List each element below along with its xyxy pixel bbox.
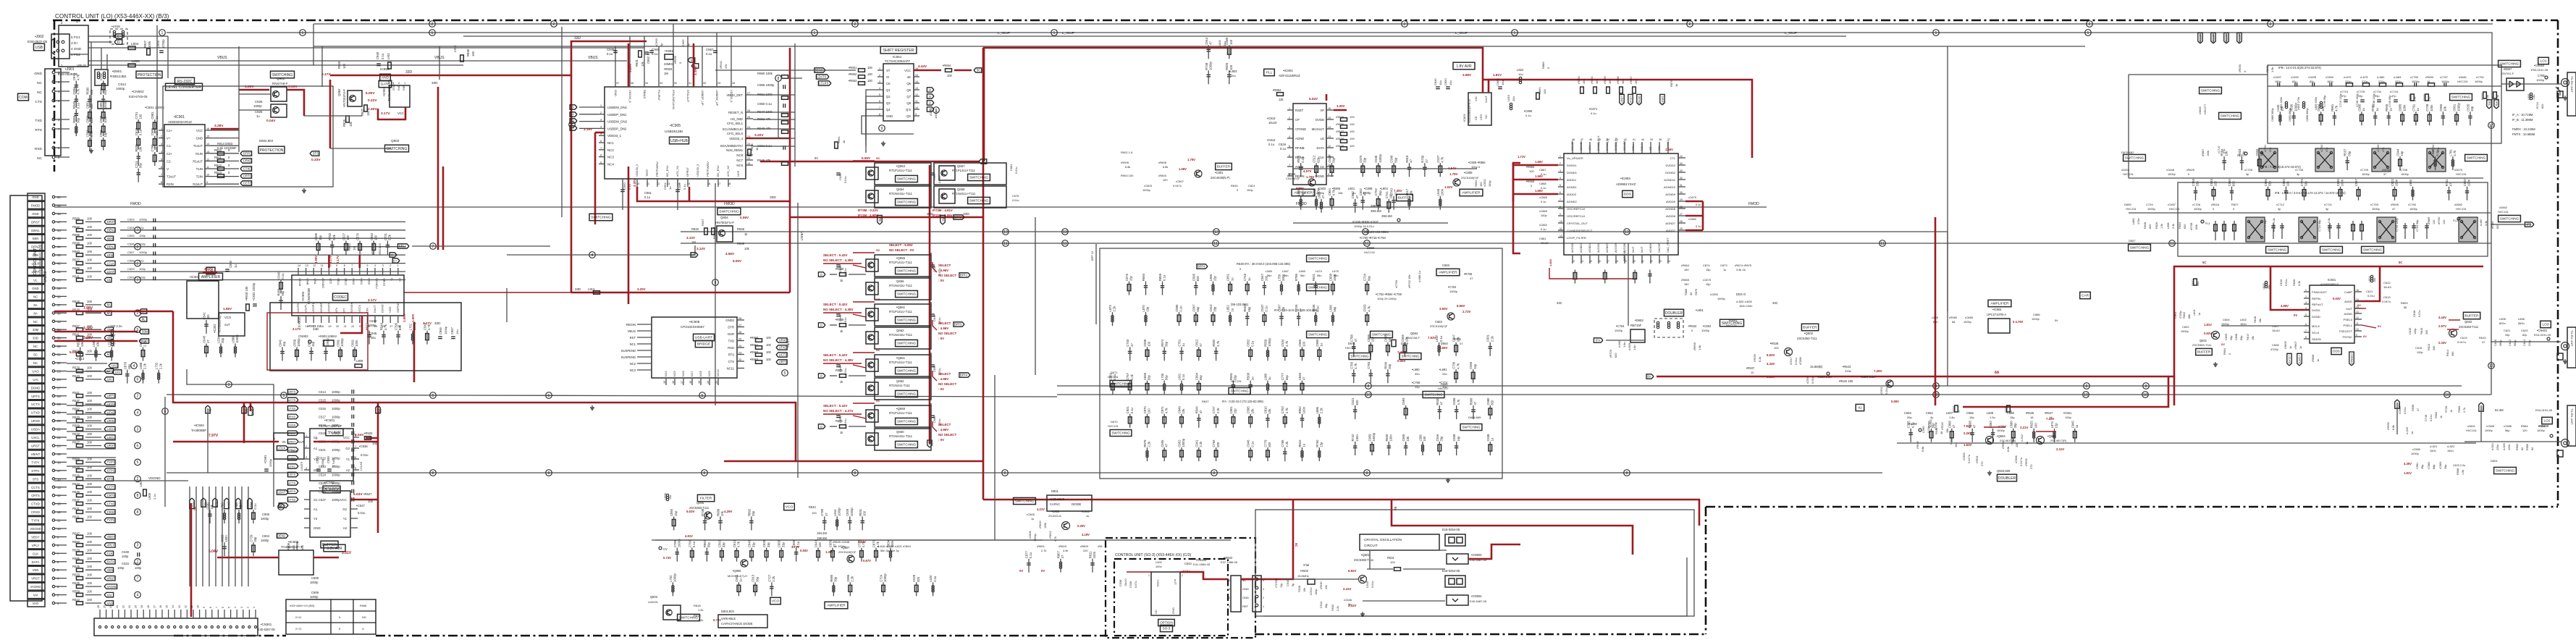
svg-text:R616: R616 bbox=[2253, 316, 2257, 323]
svg-text:2: 2 bbox=[432, 22, 434, 27]
svg-text:0.1u: 0.1u bbox=[1439, 335, 1443, 342]
TX-RX UNIT box low bbox=[2567, 405, 2576, 446]
svg-text:4.34V: 4.34V bbox=[1767, 362, 1775, 366]
bus 10 middle bbox=[681, 232, 1948, 386]
svg-text:C618: C618 bbox=[135, 127, 138, 135]
svg-text:C527: C527 bbox=[319, 498, 327, 502]
svg-text:C620: C620 bbox=[2494, 340, 2497, 346]
svg-text:•IC906: •IC906 bbox=[689, 320, 700, 324]
svg-text:100n: 100n bbox=[1355, 434, 1359, 442]
svg-text:NC: NC bbox=[37, 81, 42, 85]
svg-text:•L524: •L524 bbox=[2491, 443, 2494, 450]
svg-text:47: 47 bbox=[1580, 138, 1583, 141]
svg-text:R928: R928 bbox=[337, 61, 341, 69]
svg-text:Q658: Q658 bbox=[957, 188, 965, 191]
svg-text:C758: C758 bbox=[2192, 179, 2195, 187]
IC905 left D tags bbox=[579, 106, 599, 108]
red 5C vertical 522 bbox=[377, 403, 379, 533]
svg-text:•C751: •C751 bbox=[2476, 75, 2485, 79]
svg-text:STS: STS bbox=[313, 152, 319, 156]
IC901 input caps cluster bbox=[137, 122, 140, 129]
svg-text:L605: L605 bbox=[2499, 317, 2506, 321]
X2 filter chain bbox=[1856, 404, 1864, 410]
svg-text:7: 7 bbox=[879, 106, 880, 109]
svg-text:AGND7: AGND7 bbox=[1665, 222, 1676, 225]
svg-text:4: 4 bbox=[1289, 135, 1290, 138]
svg-text:C595: C595 bbox=[1192, 273, 1195, 281]
svg-text:8: 8 bbox=[2145, 384, 2147, 389]
svg-text:LDAT5: LDAT5 bbox=[2298, 355, 2302, 363]
row2 upper switching bbox=[2123, 154, 2146, 161]
red crystal branches bbox=[1392, 500, 1633, 539]
svg-text:(95-103.095): (95-103.095) bbox=[1231, 303, 1249, 306]
svg-text:1k: 1k bbox=[755, 148, 759, 151]
LO3 coax bbox=[2562, 342, 2569, 350]
svg-text:D-: D- bbox=[571, 106, 575, 109]
svg-text:23: 23 bbox=[116, 605, 119, 608]
svg-text:C629: C629 bbox=[912, 574, 916, 582]
bus 11 middle bbox=[681, 243, 2491, 244]
svg-text:VCC: VCC bbox=[329, 278, 332, 285]
svg-text:SUSPEND: SUSPEND bbox=[621, 355, 636, 359]
svg-text:0V: 0V bbox=[2221, 342, 2225, 346]
svg-text:100p 29 1000p: 100p 29 1000p bbox=[1377, 297, 1397, 300]
svg-text:•CN654: •CN654 bbox=[2534, 64, 2545, 67]
svg-text:100: 100 bbox=[1350, 137, 1355, 140]
svg-text:•Q501: •Q501 bbox=[1361, 553, 1370, 557]
svg-text:R598: R598 bbox=[72, 242, 80, 245]
svg-text:1.5k: 1.5k bbox=[2270, 67, 2274, 72]
svg-text:56n: 56n bbox=[1317, 274, 1322, 277]
svg-text:FILTER: FILTER bbox=[700, 497, 712, 501]
red sc feed Q659 bbox=[853, 403, 875, 404]
svg-text:RT1N441U-T111: RT1N441U-T111 bbox=[889, 284, 913, 287]
svg-text:1u: 1u bbox=[1086, 514, 1089, 518]
svg-text:E40-5487-05: E40-5487-05 bbox=[1470, 599, 1487, 603]
svg-text:1u: 1u bbox=[739, 578, 743, 581]
svg-text:7.26V: 7.26V bbox=[1874, 369, 1882, 373]
svg-text:11: 11 bbox=[1213, 242, 1217, 246]
svg-text:D+: D+ bbox=[571, 113, 575, 117]
svg-text:VDD33_1: VDD33_1 bbox=[607, 134, 622, 138]
svg-text:C925: C925 bbox=[255, 110, 263, 114]
svg-text:D657: D657 bbox=[2129, 239, 2136, 243]
svg-text:82: 82 bbox=[2531, 447, 2534, 450]
svg-text:0.01u: 0.01u bbox=[2367, 294, 2375, 298]
bus line 1 bbox=[167, 33, 2492, 86]
svg-text:10u: 10u bbox=[1512, 96, 1515, 101]
svg-text:R531: R531 bbox=[72, 515, 80, 519]
svg-text:C624: C624 bbox=[2523, 340, 2526, 346]
svg-text:8A: 8A bbox=[1647, 375, 1651, 379]
svg-text:Q657: Q657 bbox=[957, 164, 965, 168]
svg-text:1000p: 1000p bbox=[310, 595, 319, 599]
svg-text:AGND9: AGND9 bbox=[1665, 193, 1676, 196]
svg-text:: 4.96V: : 4.96V bbox=[938, 428, 948, 431]
svg-text:1: 1 bbox=[1229, 605, 1230, 608]
svg-text:C594: C594 bbox=[72, 87, 76, 95]
svg-text:VEN: VEN bbox=[107, 568, 114, 572]
svg-text:NC9: NC9 bbox=[708, 371, 711, 376]
svg-text:5: 5 bbox=[879, 93, 880, 96]
svg-text:LEN: LEN bbox=[107, 253, 113, 257]
svg-text:5C: 5C bbox=[2399, 261, 2402, 264]
R926 10k bbox=[346, 116, 350, 122]
svg-text:R693: R693 bbox=[1142, 273, 1145, 281]
svg-text:0.1u: 0.1u bbox=[683, 184, 686, 190]
svg-text:100: 100 bbox=[87, 565, 93, 568]
svg-text:•R548: •R548 bbox=[1940, 422, 1944, 430]
Q903 switching label bbox=[385, 145, 409, 152]
svg-text:NO SELECT : 4.38V: NO SELECT : 4.38V bbox=[823, 308, 854, 311]
svg-text:IF_A : 10.719M: IF_A : 10.719M bbox=[2512, 113, 2533, 117]
svg-text:10: 10 bbox=[636, 182, 639, 185]
so3 red wire bbox=[1127, 571, 1151, 573]
svg-text:C538: C538 bbox=[1119, 580, 1122, 586]
svg-text:LO3: LO3 bbox=[2542, 323, 2548, 327]
svg-text:23: 23 bbox=[1659, 260, 1662, 263]
svg-text:820: 820 bbox=[917, 576, 920, 582]
svg-text:LDAT: LDAT bbox=[277, 491, 285, 494]
svg-text:8: 8 bbox=[209, 607, 212, 608]
svg-text:•C712: •C712 bbox=[2276, 203, 2285, 206]
svg-text:Q901: Q901 bbox=[277, 77, 285, 80]
svg-text:1000p: 1000p bbox=[2475, 80, 2483, 83]
svg-text:100: 100 bbox=[87, 473, 93, 477]
svg-text:11: 11 bbox=[915, 100, 918, 103]
svg-text:VCO: VCO bbox=[786, 505, 794, 510]
svg-text:•R935: •R935 bbox=[673, 55, 677, 64]
svg-text:4.7k: 4.7k bbox=[862, 541, 865, 547]
svg-text:IF73M : 0.22V: IF73M : 0.22V bbox=[858, 209, 878, 212]
svg-text:AGND11: AGND11 bbox=[1664, 178, 1675, 182]
Q505 transistor bbox=[2037, 437, 2045, 445]
svg-text:USB: USB bbox=[35, 46, 43, 50]
svg-text:C559: C559 bbox=[293, 339, 297, 347]
svg-text:VCC: VCC bbox=[196, 129, 203, 132]
svg-text:30: 30 bbox=[1680, 191, 1683, 194]
svg-text:R742: R742 bbox=[1351, 434, 1355, 442]
svg-text:0.22V: 0.22V bbox=[368, 98, 377, 103]
red crystal connector bbox=[1632, 539, 1634, 555]
svg-text:CN902: CN902 bbox=[298, 334, 308, 338]
svg-text:5: 5 bbox=[432, 394, 434, 398]
svg-text:R596: R596 bbox=[72, 557, 80, 560]
wire stubs top area bbox=[167, 36, 169, 78]
svg-text:C505: C505 bbox=[127, 234, 135, 237]
svg-text:C799: C799 bbox=[151, 144, 154, 152]
svg-text:22k: 22k bbox=[1325, 585, 1328, 589]
svg-text:1000p: 1000p bbox=[1963, 320, 1971, 324]
svg-text:•D662: •D662 bbox=[2499, 206, 2508, 209]
svg-text:VEN: VEN bbox=[33, 568, 39, 572]
svg-text:1: 1 bbox=[2305, 289, 2307, 292]
svg-text:47: 47 bbox=[1473, 401, 1477, 405]
SHIFT REGISTER label bbox=[880, 46, 917, 54]
svg-text:FMRX : 10.240M: FMRX : 10.240M bbox=[2512, 127, 2535, 131]
svg-text:C877: C877 bbox=[1025, 551, 1029, 559]
svg-text:12: 12 bbox=[1328, 145, 1331, 148]
svg-text:C785: C785 bbox=[820, 508, 824, 516]
svg-text:•IC801: •IC801 bbox=[1283, 69, 1293, 72]
svg-text:VBSY: VBSY bbox=[31, 536, 40, 539]
svg-text:VCCP2: VCCP2 bbox=[327, 303, 330, 313]
svg-text:•C591: •C591 bbox=[264, 455, 267, 463]
svg-text:33C: 33C bbox=[1772, 301, 1778, 305]
svg-text:1M: 1M bbox=[691, 240, 696, 244]
svg-text:1: 1 bbox=[1148, 574, 1150, 577]
svg-text:R705: R705 bbox=[1454, 337, 1462, 341]
svg-text:NO SELECT: NO SELECT bbox=[938, 332, 956, 335]
red pins ic803 right bbox=[1685, 201, 1703, 203]
svg-text:NC5: NC5 bbox=[673, 371, 676, 376]
svg-text:26: 26 bbox=[747, 109, 750, 112]
svg-text:2.40V: 2.40V bbox=[368, 107, 377, 111]
svg-text:XTo: XTo bbox=[334, 307, 338, 313]
svg-text:100p: 100p bbox=[1488, 180, 1491, 187]
svg-text:NC: NC bbox=[33, 320, 38, 324]
svg-text:L601: L601 bbox=[2192, 309, 2196, 316]
svg-text:Y1: Y1 bbox=[346, 458, 350, 461]
svg-text:T2IN: T2IN bbox=[196, 175, 203, 179]
svg-text:NC5: NC5 bbox=[736, 170, 740, 177]
svg-text:URTS: URTS bbox=[288, 489, 296, 493]
svg-text:•R654: •R654 bbox=[943, 64, 951, 67]
svg-text:270: 270 bbox=[2029, 464, 2033, 469]
OPTION SO-3 label bbox=[1158, 619, 1175, 626]
svg-text:IFB : 14.0-21.5(25.374-32.874): IFB : 14.0-21.5(25.374-32.874) bbox=[2278, 66, 2322, 70]
svg-text:DEN1: DEN1 bbox=[31, 229, 40, 232]
svg-text:LCLK: LCLK bbox=[32, 262, 40, 266]
svg-text:DDS O: DDS O bbox=[1736, 292, 1746, 296]
svg-text:1.78V: 1.78V bbox=[1306, 175, 1315, 179]
svg-text:15p: 15p bbox=[1706, 268, 1711, 271]
svg-text:R606: R606 bbox=[2292, 279, 2296, 286]
svg-text:47p: 47p bbox=[2269, 148, 2272, 152]
svg-text:VBINT: VBINT bbox=[786, 339, 790, 348]
svg-text:10u: 10u bbox=[1439, 80, 1442, 85]
svg-text:V+: V+ bbox=[167, 137, 171, 140]
svg-text:4.7k: 4.7k bbox=[1456, 363, 1460, 369]
svg-text:C749: C749 bbox=[1243, 273, 1247, 281]
svg-text:C503: C503 bbox=[1363, 304, 1367, 312]
svg-text:L819: L819 bbox=[1507, 94, 1510, 101]
svg-text:•IC501: •IC501 bbox=[324, 418, 335, 423]
svg-text:13: 13 bbox=[206, 151, 209, 153]
svg-text:UTXD: UTXD bbox=[31, 411, 40, 415]
svg-text:47: 47 bbox=[2417, 408, 2420, 411]
transistor Q653 bbox=[875, 163, 931, 185]
IC803 body bbox=[1564, 153, 1678, 255]
svg-text:SC: SC bbox=[876, 156, 880, 160]
svg-text:C654: C654 bbox=[933, 365, 936, 372]
svg-text:DSR: DSR bbox=[728, 332, 734, 336]
svg-text:C835: C835 bbox=[1298, 372, 1302, 380]
svg-text:IFB: IFB bbox=[878, 216, 882, 222]
svg-text:•C546: •C546 bbox=[1344, 598, 1352, 602]
svg-text:AGND2: AGND2 bbox=[1567, 200, 1578, 203]
svg-text:USDA: USDA bbox=[31, 428, 40, 431]
long vertical 776 bbox=[561, 27, 563, 217]
IFA IFB tags down bbox=[2487, 100, 2491, 109]
svg-text:3: 3 bbox=[306, 456, 307, 459]
svg-text:IFA: IFA bbox=[1596, 339, 1600, 342]
svg-text:0V: 0V bbox=[2378, 324, 2381, 328]
svg-text:2.11V: 2.11V bbox=[2056, 447, 2064, 451]
DDS label ic601 bbox=[2331, 348, 2341, 354]
svg-text:2.2k: 2.2k bbox=[1285, 441, 1289, 447]
svg-text:R839: R839 bbox=[135, 144, 138, 152]
svg-text:•IC804: •IC804 bbox=[1992, 308, 2002, 311]
LCLK LDAT tags ic501 bbox=[277, 446, 288, 450]
svg-text:Q904: Q904 bbox=[720, 216, 728, 219]
svg-text:IFA : 0.03-10.0 (73.125-103.09: IFA : 0.03-10.0 (73.125-103.095) bbox=[1274, 308, 1318, 312]
svg-text:DEN2: DEN2 bbox=[107, 245, 116, 248]
svg-text:15k: 15k bbox=[1945, 429, 1949, 433]
svg-text:C870: C870 bbox=[872, 539, 876, 547]
svg-text:oCS_N2: oCS_N2 bbox=[726, 165, 730, 177]
svg-text:GND: GND bbox=[313, 468, 321, 472]
svg-text:D+: D+ bbox=[76, 20, 80, 23]
svg-text:8: 8 bbox=[854, 471, 856, 476]
svg-text:100: 100 bbox=[812, 511, 817, 515]
svg-text:•C721: •C721 bbox=[2324, 203, 2333, 206]
wire mid vertical 1102 bbox=[797, 405, 799, 478]
lclk5 ldat5 tags bbox=[2287, 353, 2291, 366]
svg-text:•Q651: •Q651 bbox=[896, 356, 906, 360]
svg-text:AGND: AGND bbox=[2344, 312, 2352, 316]
wires q901 area bbox=[239, 93, 271, 95]
LDAT LCLK DEN tags right bbox=[1620, 94, 1624, 105]
svg-text:C867: C867 bbox=[1192, 304, 1195, 312]
svg-text:A1: A1 bbox=[313, 447, 318, 450]
svg-text:33p: 33p bbox=[722, 542, 725, 547]
IC901 ADM3202ARUZ bbox=[164, 125, 205, 187]
BUFFER label ic502 bbox=[321, 541, 338, 548]
svg-text:•L905: •L905 bbox=[131, 59, 140, 63]
svg-text:RT1N441U-T111: RT1N441U-T111 bbox=[889, 434, 913, 438]
svg-text:C575: C575 bbox=[1125, 273, 1129, 281]
svg-text:C714 68p: C714 68p bbox=[2264, 220, 2267, 232]
crystal area red box bbox=[267, 313, 368, 370]
svg-text:100p: 100p bbox=[135, 566, 142, 570]
svg-text:68p: 68p bbox=[2433, 465, 2436, 469]
bank switching labels extra bbox=[1110, 381, 1132, 387]
IFA tag d652 bbox=[1594, 338, 1603, 342]
svg-text:47p: 47p bbox=[139, 259, 144, 263]
vco mid wire bbox=[655, 539, 1043, 541]
svg-text:HVC131: HVC131 bbox=[2169, 207, 2180, 211]
svg-text:AMPLIFIER: AMPLIFIER bbox=[1462, 191, 1481, 195]
svg-text:RBIAS: RBIAS bbox=[643, 90, 647, 98]
svg-text:C540: C540 bbox=[1286, 579, 1289, 586]
row3 shaded transformers bbox=[2246, 217, 2265, 242]
svg-text:RT1N441-T111: RT1N441-T111 bbox=[889, 384, 911, 387]
svg-text:•C650: •C650 bbox=[2325, 75, 2334, 79]
svg-text:5.03V: 5.03V bbox=[686, 510, 695, 513]
svg-text:100: 100 bbox=[87, 216, 93, 220]
svg-text:C545: C545 bbox=[1365, 581, 1369, 588]
svg-text:RT1N441U-T111: RT1N441U-T111 bbox=[889, 192, 913, 195]
svg-text:29: 29 bbox=[1680, 198, 1683, 201]
svg-text:CLK: CLK bbox=[216, 502, 219, 508]
svg-text:SEN: SEN bbox=[107, 237, 114, 240]
svg-text:•R858: •R858 bbox=[1526, 180, 1535, 183]
svg-text:C524: C524 bbox=[319, 473, 327, 477]
svg-text:•R702 15k: •R702 15k bbox=[1407, 274, 1411, 288]
svg-text:URST: URST bbox=[288, 439, 296, 443]
svg-text:•R619 3.3k: •R619 3.3k bbox=[2273, 218, 2276, 232]
svg-text:GND: GND bbox=[32, 195, 39, 199]
svg-text:VCC: VCC bbox=[397, 111, 404, 115]
svg-text:E37-1486-05: E37-1486-05 bbox=[1221, 560, 1238, 564]
svg-text:Q2: Q2 bbox=[886, 95, 891, 98]
svg-text:C949: C949 bbox=[1178, 406, 1182, 414]
svg-text:1: 1 bbox=[161, 31, 164, 35]
svg-text:BPF4: BPF4 bbox=[1197, 265, 1205, 269]
svg-text:1000p: 1000p bbox=[1268, 337, 1271, 346]
svg-text:8: 8 bbox=[1004, 471, 1006, 476]
svg-text:•C588: •C588 bbox=[1798, 357, 1802, 365]
svg-text:R960: R960 bbox=[703, 539, 707, 547]
svg-text:TX-RX UNIT: TX-RX UNIT bbox=[2570, 330, 2574, 347]
svg-text:C649: C649 bbox=[748, 539, 752, 547]
svg-text:C509: C509 bbox=[127, 267, 135, 271]
svg-text:•Q505: •Q505 bbox=[2047, 434, 2056, 438]
svg-text:1000p: 1000p bbox=[1997, 429, 2005, 432]
row2 wire bbox=[2129, 177, 2483, 179]
svg-text:100: 100 bbox=[87, 441, 93, 445]
svg-text:D-: D- bbox=[117, 41, 121, 45]
svg-text:VDO33_6: VDO33_6 bbox=[628, 90, 632, 103]
COM label bbox=[18, 93, 29, 101]
svg-text:0.047u: 0.047u bbox=[1967, 455, 1971, 463]
svg-text:33p: 33p bbox=[1388, 363, 1392, 369]
svg-text:0.1u: 0.1u bbox=[1179, 306, 1183, 312]
Q504 transistor bbox=[1986, 437, 1994, 445]
svg-text:82: 82 bbox=[2521, 447, 2524, 450]
svg-text:PCM2903B: PCM2903B bbox=[307, 288, 311, 304]
svg-text:DEN2: DEN2 bbox=[31, 245, 40, 249]
svg-text:15p: 15p bbox=[2010, 416, 2015, 419]
svg-text:NC11: NC11 bbox=[727, 367, 735, 371]
svg-text:C519: C519 bbox=[319, 431, 327, 435]
svg-text:1000p: 1000p bbox=[2485, 429, 2493, 432]
svg-text:10k: 10k bbox=[1268, 408, 1271, 414]
svg-text:D669: D669 bbox=[1401, 342, 1409, 345]
svg-text:10u10: 10u10 bbox=[2383, 285, 2392, 289]
5V AVR label bbox=[326, 429, 343, 436]
svg-text:9p: 9p bbox=[1292, 584, 1295, 586]
svg-text:•C648: •C648 bbox=[2166, 168, 2175, 172]
svg-text:3.28V: 3.28V bbox=[214, 124, 224, 128]
svg-text:23: 23 bbox=[738, 352, 741, 355]
svg-text:100n: 100n bbox=[1333, 274, 1337, 281]
L802 L803 cap cluster bbox=[1207, 49, 1211, 50]
svg-text:BUFFER: BUFFER bbox=[322, 543, 337, 547]
svg-text:SELECT: SELECT bbox=[938, 321, 951, 325]
svg-text:2: 2 bbox=[161, 135, 162, 138]
svg-text:•Q806: •Q806 bbox=[733, 569, 741, 573]
svg-text:39p: 39p bbox=[2421, 465, 2424, 469]
svg-text:T2oUT: T2oUT bbox=[167, 175, 177, 179]
8L line bottom bbox=[207, 408, 209, 473]
svg-text:C612: C612 bbox=[2383, 281, 2391, 285]
svg-text:6: 6 bbox=[137, 444, 139, 448]
PLL label bbox=[1264, 69, 1275, 75]
svg-text:11: 11 bbox=[1365, 242, 1368, 246]
red branch dvdd bbox=[2270, 266, 2310, 310]
